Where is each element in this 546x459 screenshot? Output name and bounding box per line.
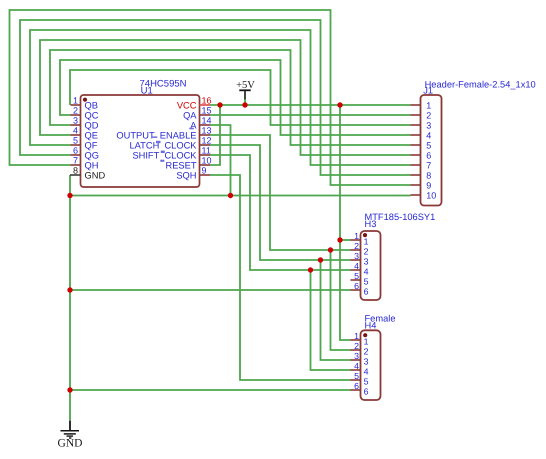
wire net LATCH_CLOCK: U1 pin12 down to H3 pin3: [210, 145, 351, 260]
H4 pin 4: [351, 361, 369, 377]
H3 pin 2: [351, 241, 369, 257]
svg-text:QB: QB: [85, 100, 98, 110]
junction net A meets GND row at (230.5,195.5): [228, 193, 233, 198]
J1 pin 5: [411, 140, 432, 150]
wire net SQH: U1 pin9 down to H4 pin5: [210, 175, 351, 380]
wire GND row to H4 pin6: [70, 389, 351, 391]
connector H3 MTF185-106SY1 body: [361, 231, 381, 300]
J1 pin 10: [411, 190, 437, 200]
svg-text:3: 3: [426, 120, 431, 130]
junction H3 pin4 at (310.5,270): [308, 267, 313, 272]
svg-text:5: 5: [354, 271, 359, 281]
svg-text:3: 3: [354, 351, 359, 361]
svg-text:5: 5: [426, 140, 431, 150]
U1 pin 14 A: [190, 116, 211, 131]
svg-text:5: 5: [73, 136, 78, 146]
H4 pin 3: [351, 351, 369, 367]
U1 pin 16 VCC: [177, 96, 212, 111]
svg-text:4: 4: [354, 261, 359, 271]
wire GND row to H3 pin6: [70, 289, 351, 291]
U1 pin 11 SHIFT_CLOCK: [132, 146, 210, 161]
wire net QD: U1 pin3 loop over top to J1 pin5: [50, 50, 411, 145]
svg-text:3: 3: [364, 357, 369, 367]
op-amp U1 74HC595N body: [81, 95, 200, 187]
svg-text:QE: QE: [85, 130, 98, 140]
svg-text:11: 11: [202, 146, 211, 156]
svg-text:10: 10: [202, 156, 212, 166]
wire VCC tap to H3 pin1: [340, 239, 351, 241]
wire net OUTPUT_ENABLE: U1 pin13 down to H3 pin2: [210, 135, 351, 250]
wire net QC: U1 pin2 loop over top to J1 pin4: [60, 60, 411, 135]
J1 pin 1: [411, 100, 432, 110]
power +5V symbol: [236, 80, 255, 99]
svg-text:3: 3: [364, 257, 369, 267]
wire net QF: U1 pin5 loop over top to J1 pin7: [30, 30, 411, 165]
svg-text:QC: QC: [85, 110, 99, 120]
wire OUTPUT_ENABLE branch down to H4 pin2: [331, 250, 351, 350]
H3 pin 5 (unconnected): [351, 271, 369, 287]
svg-text:9: 9: [426, 180, 431, 190]
U1 pin 10 RESET: [166, 156, 212, 171]
junction H3 pin2 at (330.5,250): [328, 247, 333, 252]
junction H3 pin1 at (340,240): [337, 237, 342, 242]
svg-text:GND: GND: [58, 437, 83, 449]
svg-text:6: 6: [426, 150, 431, 160]
U1 pin 2 QC: [71, 106, 99, 121]
J1 pin 2: [411, 110, 432, 120]
svg-text:2: 2: [354, 241, 359, 251]
svg-text:GND: GND: [85, 170, 106, 180]
svg-text:1: 1: [73, 96, 78, 106]
wire net QE: U1 pin4 loop over top to J1 pin6: [40, 40, 411, 155]
svg-text:6: 6: [73, 146, 78, 156]
U1 pin 4 QE: [71, 126, 98, 141]
svg-text:6: 6: [354, 281, 359, 291]
H4 pin 6: [351, 381, 369, 397]
H3 pin-1 marker dot: [363, 233, 367, 237]
svg-text:2: 2: [426, 110, 431, 120]
svg-text:SHIFT_CLOCK: SHIFT_CLOCK: [132, 150, 197, 160]
svg-text:2: 2: [364, 347, 369, 357]
svg-text:4: 4: [354, 361, 359, 371]
J1 pin 7: [411, 160, 432, 170]
U1 pin 3 QD: [71, 116, 99, 131]
svg-text:VCC: VCC: [177, 100, 197, 110]
svg-text:1: 1: [354, 331, 359, 341]
svg-text:2: 2: [354, 341, 359, 351]
junction GND rail / H3 row at (70,290): [67, 287, 72, 292]
wire net QG: U1 pin6 loop over top to J1 pin8: [20, 20, 411, 175]
svg-text:U1: U1: [141, 86, 153, 97]
wire net VCC: U1 pin16 to J1 pin1: [210, 104, 411, 106]
svg-text:LATCH_CLOCK: LATCH_CLOCK: [130, 140, 198, 150]
svg-text:7: 7: [73, 156, 78, 166]
J1 pin 9: [411, 180, 432, 190]
svg-text:1: 1: [354, 231, 359, 241]
svg-text:2: 2: [364, 247, 369, 257]
wire VCC branch down to U1 pin10 RESET: [210, 105, 220, 165]
wire net A: U1 pin14 down to GND rail: [210, 125, 231, 196]
U1 pin 5 QF: [71, 136, 98, 151]
H3 pin 4: [351, 261, 369, 277]
junction GND rail / J1 row at (70,195.5): [67, 193, 72, 198]
wire net QH: U1 pin7 loop over top to J1 pin9: [10, 10, 411, 185]
svg-text:4: 4: [364, 267, 369, 277]
wire VCC branch down column x340 to H3 pin1 and H4 pin1: [340, 105, 351, 340]
U1 pin 15 QA: [183, 106, 211, 121]
wire +5V symbol drop to VCC rail: [244, 99, 246, 105]
J1 pin 4: [411, 130, 432, 140]
svg-text:+5V: +5V: [236, 80, 255, 91]
svg-text:Header-Female-2.54_1x10: Header-Female-2.54_1x10: [425, 79, 536, 89]
svg-text:H4: H4: [365, 321, 377, 331]
U1 odd underscore artifacts: [152, 128, 194, 162]
svg-text:16: 16: [202, 96, 212, 106]
svg-text:QG: QG: [85, 150, 99, 160]
svg-text:4: 4: [73, 126, 78, 136]
svg-text:10: 10: [426, 190, 436, 200]
svg-text:H3: H3: [365, 219, 377, 229]
svg-text:RESET: RESET: [166, 160, 197, 170]
svg-text:7: 7: [426, 160, 431, 170]
H3 pin 3: [351, 251, 369, 267]
wire net QA: U1 pin15 to J1 pin2: [210, 114, 411, 116]
svg-text:QF: QF: [85, 140, 98, 150]
junction +5V tap at (245,105): [242, 102, 247, 107]
svg-text:5: 5: [364, 377, 369, 387]
svg-text:3: 3: [73, 116, 78, 126]
svg-text:6: 6: [364, 287, 369, 297]
U1 pin 1 QB: [71, 96, 98, 111]
svg-text:3: 3: [354, 251, 359, 261]
U1 pin 13 OUTPUT_ENABLE: [116, 126, 211, 141]
wire GND row to J1 pin10: [70, 195, 411, 197]
svg-text:12: 12: [202, 136, 212, 146]
wire LATCH_CLOCK branch down to H4 pin3: [321, 260, 351, 360]
svg-text:4: 4: [364, 367, 369, 377]
svg-text:QA: QA: [183, 110, 197, 120]
svg-text:J1: J1: [423, 86, 433, 96]
svg-text:SQH: SQH: [176, 170, 196, 180]
svg-text:9: 9: [202, 166, 207, 176]
U1 pin 7 QH: [71, 156, 99, 171]
svg-text:6: 6: [354, 381, 359, 391]
svg-text:QH: QH: [85, 160, 99, 170]
J1 pin 6: [411, 150, 432, 160]
H4 pin 5: [351, 371, 369, 387]
connector J1 Header-Female-2.54_1x10 body: [421, 95, 442, 206]
svg-text:5: 5: [364, 277, 369, 287]
svg-text:1: 1: [426, 100, 431, 110]
wire GND vertical rail from U1 pin8 down to ground symbol: [69, 175, 71, 421]
svg-text:1: 1: [364, 237, 369, 247]
svg-text:8: 8: [426, 170, 431, 180]
connector H4 Female body: [361, 330, 381, 400]
U1 pin 8 GND: [70, 166, 105, 181]
junction VCC branch at (340,105): [337, 102, 342, 107]
H3 pin 1: [351, 231, 369, 247]
J1 pin 3: [411, 120, 432, 130]
svg-text:14: 14: [202, 116, 212, 126]
wire net SHIFT_CLOCK: U1 pin11 down to H3 pin4: [210, 155, 351, 270]
H4 pin 2: [351, 341, 369, 357]
H4 pin 1: [351, 331, 369, 347]
wire net QB: U1 pin1 loop over top to J1 pin3: [70, 70, 411, 125]
ground GND symbol: [58, 421, 83, 450]
J1 pin 8: [411, 170, 432, 180]
U1 pin 9 SQH: [176, 166, 210, 181]
svg-text:6: 6: [364, 387, 369, 397]
junction GND rail / H4 row at (70,390): [67, 387, 72, 392]
U1 pin 6 QG: [71, 146, 99, 161]
junction H3 pin3 at (320.5,260): [318, 257, 323, 262]
svg-text:4: 4: [426, 130, 431, 140]
wire SHIFT_CLOCK branch down to H4 pin4: [311, 270, 351, 370]
svg-text:5: 5: [354, 371, 359, 381]
H3 pin 6: [351, 281, 369, 297]
U1 pin 12 LATCH_CLOCK: [130, 136, 212, 151]
junction VCC/RESET at (220,105): [217, 102, 222, 107]
svg-text:2: 2: [73, 106, 78, 116]
svg-text:8: 8: [73, 166, 78, 176]
U1 pin-1 marker dot: [83, 98, 87, 102]
svg-text:QD: QD: [85, 120, 99, 130]
H4 pin-1 marker dot: [363, 333, 367, 337]
svg-text:15: 15: [202, 106, 212, 116]
svg-text:OUTPUT_ENABLE: OUTPUT_ENABLE: [116, 130, 196, 140]
svg-text:13: 13: [202, 126, 212, 136]
svg-text:1: 1: [364, 337, 369, 347]
